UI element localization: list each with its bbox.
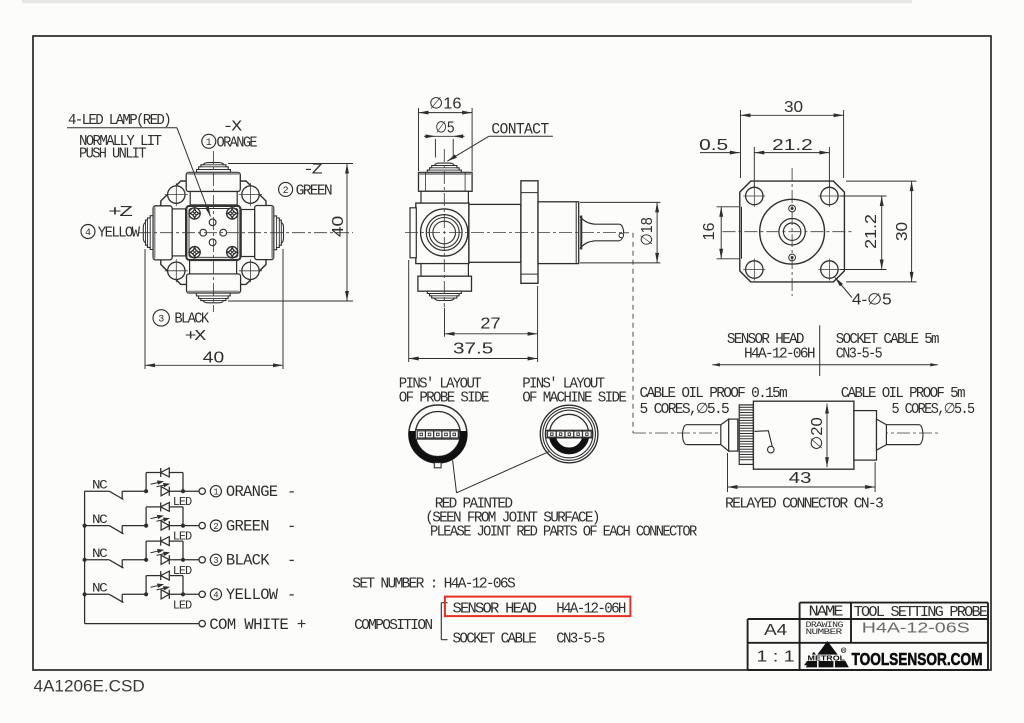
svg-text:+Z: +Z — [108, 205, 133, 221]
svg-text:BLACK: BLACK — [226, 552, 270, 570]
svg-text:∅5: ∅5 — [435, 120, 454, 137]
svg-text:4A1206E.CSD: 4A1206E.CSD — [34, 678, 145, 696]
svg-text:LED: LED — [173, 598, 192, 612]
svg-text:2: 2 — [213, 522, 218, 532]
svg-text:OF PROBE SIDE: OF PROBE SIDE — [399, 391, 489, 407]
svg-text:-: - — [287, 518, 296, 536]
svg-text:CABLE OIL PROOF 0.15m: CABLE OIL PROOF 0.15m — [640, 386, 787, 402]
svg-text:0.5: 0.5 — [699, 137, 728, 154]
svg-text:-: - — [287, 586, 296, 604]
svg-text:GREEN: GREEN — [226, 518, 269, 536]
svg-text:1: 1 — [213, 487, 218, 497]
svg-text:16: 16 — [701, 222, 718, 240]
svg-text:-: - — [287, 552, 296, 570]
svg-text:H4A-12-06H: H4A-12-06H — [556, 602, 626, 618]
svg-text:21.2: 21.2 — [863, 214, 880, 249]
svg-text:R: R — [842, 648, 845, 653]
svg-text:H4A-12-06S: H4A-12-06S — [862, 621, 970, 637]
svg-text:40: 40 — [330, 216, 347, 238]
svg-text:PLEASE JOINT RED PARTS OF EACH: PLEASE JOINT RED PARTS OF EACH CONNECTOR — [430, 525, 697, 541]
svg-text:SENSOR HEAD: SENSOR HEAD — [453, 602, 537, 618]
svg-text:NC: NC — [92, 581, 108, 596]
svg-text:TOOL SETTING PROBE: TOOL SETTING PROBE — [854, 605, 988, 621]
svg-text:NAME: NAME — [809, 605, 843, 621]
svg-text:-Z: -Z — [303, 163, 323, 179]
svg-text:TOOLSENSOR.COM: TOOLSENSOR.COM — [852, 649, 983, 669]
svg-text:OF MACHINE SIDE: OF MACHINE SIDE — [522, 391, 626, 407]
svg-text:H4A-12-06H: H4A-12-06H — [744, 347, 815, 363]
svg-text:NC: NC — [92, 512, 108, 527]
svg-text:30: 30 — [894, 222, 911, 241]
svg-text:37.5: 37.5 — [453, 341, 493, 358]
svg-text:COMPOSITION: COMPOSITION — [354, 618, 432, 634]
svg-text:40: 40 — [203, 350, 225, 367]
svg-text:+X: +X — [185, 329, 207, 345]
svg-text:YELLOW: YELLOW — [98, 226, 141, 242]
svg-text:21.2: 21.2 — [772, 137, 813, 154]
svg-text:GREEN: GREEN — [296, 184, 332, 200]
svg-text:YELLOW: YELLOW — [226, 586, 279, 604]
svg-text:1 : 1: 1 : 1 — [757, 649, 795, 666]
svg-text:NC: NC — [92, 478, 108, 493]
svg-text:4-LED LAMP(RED): 4-LED LAMP(RED) — [68, 113, 170, 129]
svg-text:ORANGE: ORANGE — [226, 483, 278, 501]
svg-text:30: 30 — [784, 99, 803, 116]
svg-text:CN3-5-5: CN3-5-5 — [836, 347, 882, 363]
svg-text:PUSH UNLIT: PUSH UNLIT — [79, 147, 147, 163]
svg-text:1: 1 — [206, 138, 212, 149]
svg-text:∅18: ∅18 — [639, 217, 656, 246]
svg-text:4: 4 — [213, 591, 218, 601]
svg-text:3: 3 — [213, 556, 218, 566]
svg-text:-X: -X — [223, 120, 243, 136]
svg-text:CABLE OIL PROOF 5m: CABLE OIL PROOF 5m — [841, 386, 965, 402]
svg-text:27: 27 — [480, 316, 500, 333]
svg-text:COM WHITE +: COM WHITE + — [209, 616, 306, 634]
svg-text:43: 43 — [789, 470, 812, 487]
svg-text:4-∅5: 4-∅5 — [852, 292, 892, 309]
svg-text:-: - — [287, 483, 296, 501]
svg-text:ORANGE: ORANGE — [217, 136, 257, 152]
svg-text:4: 4 — [85, 228, 91, 239]
svg-text:RELAYED CONNECTOR CN-3: RELAYED CONNECTOR CN-3 — [725, 497, 883, 513]
svg-text:A4: A4 — [764, 622, 787, 639]
svg-text:∅20: ∅20 — [809, 417, 826, 450]
svg-text:CN3-5-5: CN3-5-5 — [556, 632, 604, 648]
svg-text:5 CORES,∅5.5: 5 CORES,∅5.5 — [640, 402, 730, 418]
svg-text:NUMBER: NUMBER — [806, 628, 843, 637]
svg-text:5 CORES,∅5.5: 5 CORES,∅5.5 — [892, 402, 975, 418]
svg-text:BLACK: BLACK — [174, 312, 209, 328]
svg-text:3: 3 — [158, 315, 164, 326]
svg-text:∅16: ∅16 — [429, 96, 462, 113]
svg-text:2: 2 — [283, 186, 289, 197]
svg-text:SET NUMBER : H4A-12-06S: SET NUMBER : H4A-12-06S — [352, 577, 515, 593]
svg-text:NC: NC — [92, 546, 108, 561]
svg-text:SOCKET CABLE: SOCKET CABLE — [453, 632, 537, 648]
